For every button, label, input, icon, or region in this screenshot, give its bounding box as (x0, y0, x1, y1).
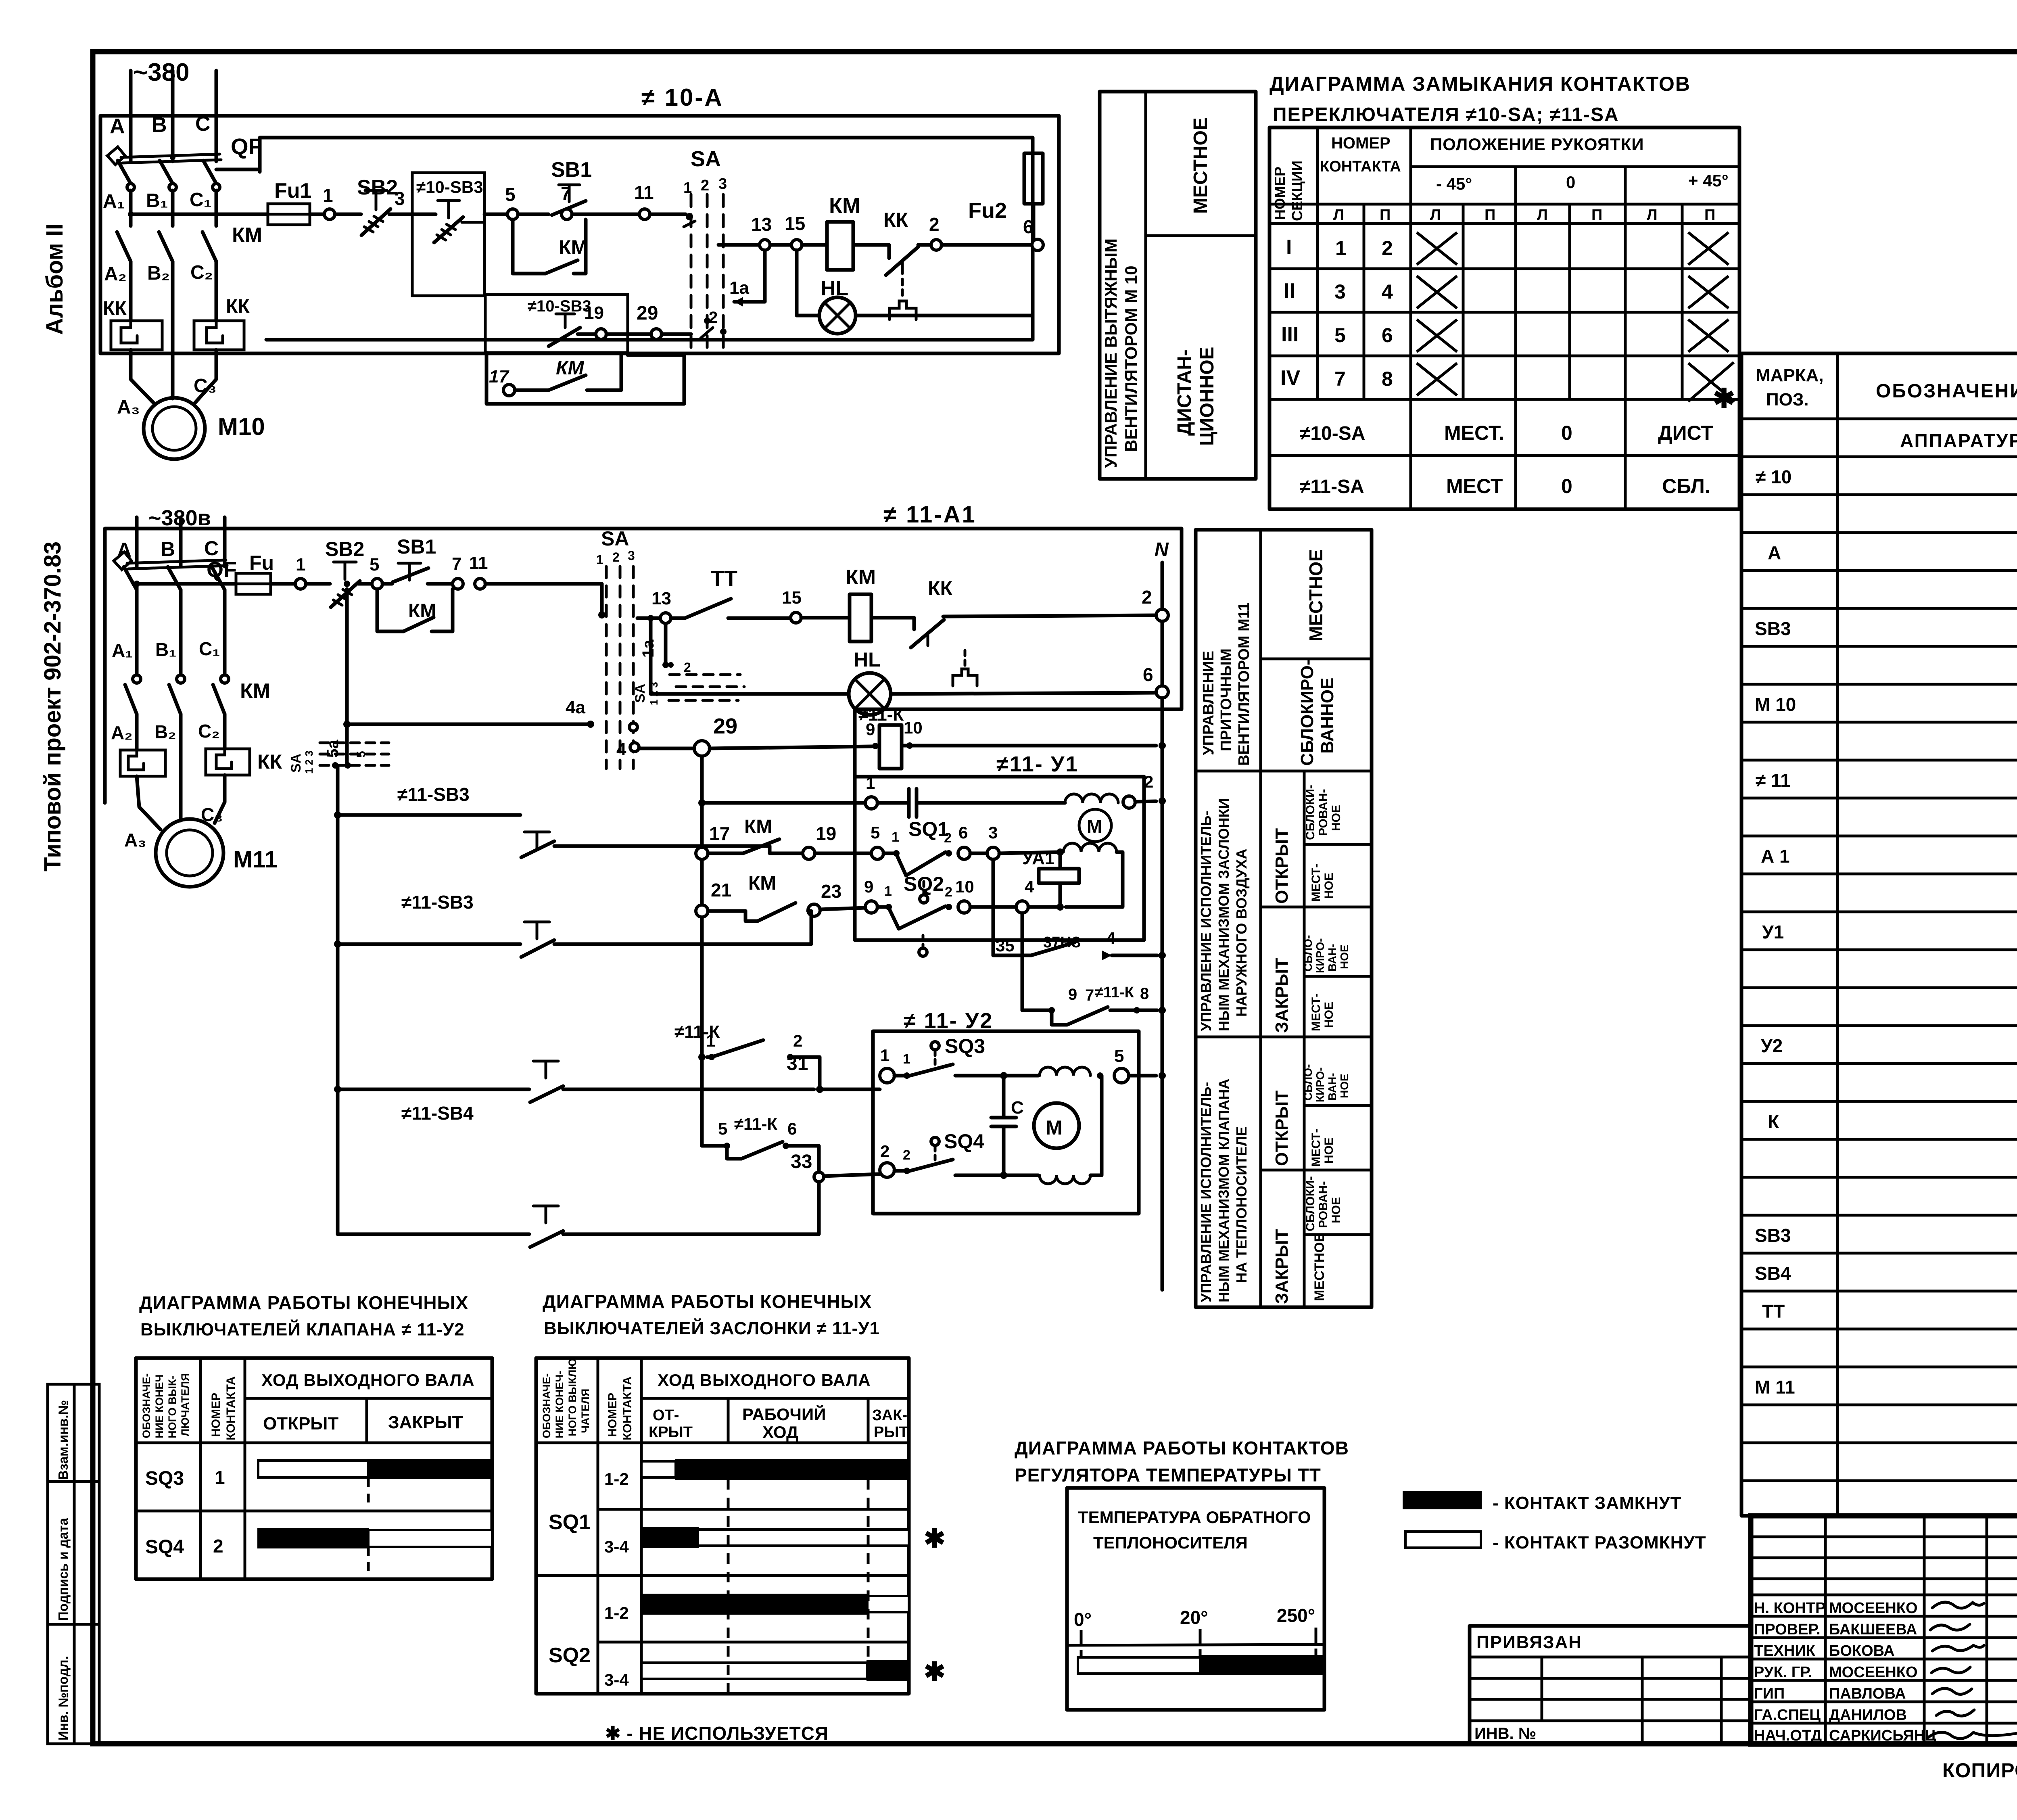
svg-text:УА1: УА1 (1022, 848, 1054, 868)
svg-text:≠11-К: ≠11-К (734, 1114, 777, 1133)
svg-text:НОГО ВЫКЛЮ: НОГО ВЫКЛЮ (566, 1358, 578, 1436)
contact #11-K 5-6 (702, 1114, 819, 1171)
node 2 U1 (1123, 772, 1156, 808)
label ~380v supply (148, 506, 211, 530)
button #11-SB3 branch 2 (338, 892, 811, 957)
main control wire from A1 (128, 211, 268, 217)
svg-text:C₂: C₂ (190, 262, 213, 283)
winding U2 top (1040, 1067, 1103, 1079)
note: asterisk legend (605, 1723, 829, 1744)
svg-text:9: 9 (866, 720, 875, 739)
svg-text:SQ1: SQ1 (549, 1511, 591, 1534)
svg-text:КРЫТ: КРЫТ (649, 1424, 693, 1441)
svg-text:ДИАГРАММА ЗАМЫКАНИЯ КОНТАКТО: ДИАГРАММА ЗАМЫКАНИЯ КОНТАКТОВ (1269, 73, 1691, 95)
svg-text:КМ: КМ (556, 357, 585, 379)
wire to node 5 (484, 213, 507, 216)
thermal element KK phase C ckt2 (206, 749, 282, 775)
coil UA1 (1022, 848, 1079, 907)
svg-text:НОМЕР: НОМЕР (1272, 167, 1288, 220)
svg-text:4: 4 (1106, 929, 1116, 948)
svg-text:3: 3 (1334, 280, 1346, 303)
svg-text:КОНТАКТА: КОНТАКТА (621, 1376, 634, 1440)
svg-text:УПРАВЛЕНИЕ: УПРАВЛЕНИЕ (1200, 651, 1217, 755)
svg-text:М11: М11 (233, 846, 278, 873)
U1 row2: SQ1 (871, 818, 1064, 903)
breaker QF (107, 134, 262, 191)
capacitor C in U2 (991, 1076, 1024, 1175)
svg-text:A₁: A₁ (112, 640, 133, 661)
svg-text:2: 2 (880, 1142, 889, 1161)
svg-text:РЕГУЛЯТОРА ТЕМПЕРАТУРЫ ТТ: РЕГУЛЯТОРА ТЕМПЕРАТУРЫ ТТ (1015, 1465, 1321, 1486)
svg-text:7: 7 (1085, 986, 1094, 1004)
svg-text:МЕСТ-: МЕСТ- (1309, 1129, 1323, 1167)
U1 row3: SQ2 (864, 873, 1064, 956)
svg-text:B: B (152, 113, 167, 137)
wire QF to control loop (216, 168, 260, 171)
svg-text:3-4: 3-4 (604, 1670, 629, 1689)
svg-text:ПОЗ.: ПОЗ. (1766, 390, 1809, 410)
svg-text:НОГО ВЫК-: НОГО ВЫК- (166, 1376, 178, 1438)
node 3 label (389, 188, 436, 214)
svg-text:31: 31 (787, 1053, 808, 1074)
SA deck 1a (633, 624, 744, 705)
svg-text:8: 8 (1140, 985, 1149, 1003)
fuse Fu ckt2 (236, 552, 295, 594)
phase bus B2ckt (161, 517, 181, 566)
enclosure local button #10-SB3 (412, 173, 484, 296)
svg-text:БОКОВА: БОКОВА (1829, 1642, 1895, 1659)
svg-text:АППАРАТУРА: АППАРАТУРА (1900, 430, 2017, 451)
thermal element KK phase A (103, 298, 162, 350)
phase bus B (152, 71, 173, 161)
enclosure box #11-A1 (105, 529, 1182, 803)
svg-text:КК: КК (226, 296, 250, 317)
motor M in U2 (1034, 1103, 1079, 1148)
svg-text:1a: 1a (729, 278, 749, 298)
svg-text:ОБОЗНАЧЕ-: ОБОЗНАЧЕ- (541, 1373, 553, 1438)
label box #11-A1 (883, 501, 977, 528)
margin stamp boxes bottom-left (48, 1384, 99, 1744)
svg-text:9: 9 (1068, 986, 1077, 1003)
svg-text:A₃: A₃ (124, 830, 146, 850)
svg-text:МЕСТНОЕ: МЕСТНОЕ (1312, 1233, 1327, 1301)
svg-text:У1: У1 (1762, 921, 1784, 942)
svg-text:НАРУЖНОГО ВОЗДУХА: НАРУЖНОГО ВОЗДУХА (1233, 848, 1250, 1017)
node 19 (584, 303, 651, 339)
svg-text:ЗАКРЫТ: ЗАКРЫТ (1272, 1229, 1292, 1304)
contactor KM main contacts (117, 190, 262, 355)
contact state bars U1 table (641, 1460, 946, 1694)
svg-text:2: 2 (929, 214, 940, 235)
svg-text:СБЛОКИ-: СБЛОКИ- (1304, 785, 1317, 840)
svg-text:УПРАВЛЕНИЕ ИСПОЛНИТЕЛЬ-: УПРАВЛЕНИЕ ИСПОЛНИТЕЛЬ- (1198, 811, 1214, 1032)
svg-text:Fu1: Fu1 (274, 179, 311, 203)
button SB2 ckt2 (NC) (306, 538, 372, 607)
svg-text:A₃: A₃ (117, 397, 140, 418)
svg-text:ТЕПЛОНОСИТЕЛЯ: ТЕПЛОНОСИТЕЛЯ (1093, 1533, 1248, 1552)
svg-text:МОСЕЕНКО: МОСЕЕНКО (1829, 1600, 1918, 1617)
coil #11-K (858, 705, 1156, 769)
phase drops to KM ckt2 (112, 584, 229, 683)
svg-text:М: М (1046, 1116, 1063, 1139)
svg-text:3: 3 (988, 823, 998, 842)
svg-text:HL: HL (854, 648, 881, 671)
svg-text:НОЕ: НОЕ (1338, 1074, 1351, 1098)
svg-text:2: 2 (945, 884, 952, 900)
svg-text:ТЕХНИК: ТЕХНИК (1754, 1642, 1816, 1659)
svg-text:ОБОЗНАЧЕ-: ОБОЗНАЧЕ- (140, 1373, 152, 1438)
svg-text:ДАНИЛОВ: ДАНИЛОВ (1829, 1707, 1907, 1724)
svg-text:1a: 1a (639, 639, 657, 658)
svg-text:СБЛО-: СБЛО- (1302, 1064, 1314, 1101)
svg-text:SQ4: SQ4 (145, 1536, 184, 1558)
svg-text:SA: SA (691, 147, 721, 171)
node 7 ckt2 (452, 554, 463, 589)
node 13 ckt2 (651, 589, 671, 623)
svg-text:КОНТАКТА: КОНТАКТА (1320, 158, 1401, 175)
svg-text:НИЕ КОНЕЧ: НИЕ КОНЕЧ (153, 1375, 165, 1438)
svg-text:РАБОЧИЙ: РАБОЧИЙ (742, 1404, 826, 1424)
svg-text:М 11: М 11 (1755, 1377, 1795, 1398)
svg-text:7: 7 (1334, 368, 1346, 390)
node 31 (787, 1053, 880, 1093)
svg-text:Fu2: Fu2 (968, 199, 1007, 223)
svg-text:МЕСТНОЕ: МЕСТНОЕ (1305, 549, 1326, 641)
contact 35 row (993, 859, 1157, 960)
svg-text:КМ: КМ (846, 566, 876, 589)
svg-text:НОЕ: НОЕ (1322, 1137, 1336, 1164)
svg-text:Л: Л (1430, 207, 1441, 224)
svg-text:5: 5 (1334, 324, 1346, 347)
svg-text:- КОНТАКТ РАЗОМКНУТ: - КОНТАКТ РАЗОМКНУТ (1493, 1533, 1706, 1553)
svg-text:СБЛОКИ-: СБЛОКИ- (1304, 1176, 1317, 1231)
svg-text:✱ - НЕ ИСПОЛЬЗУЕТСЯ: ✱ - НЕ ИСПОЛЬЗУЕТСЯ (605, 1723, 829, 1744)
local button #10-SB3 lower enclosure (485, 295, 628, 353)
svg-text:4: 4 (1382, 280, 1393, 303)
svg-text:29: 29 (713, 714, 737, 738)
svg-text:ОБОЗНАЧЕНИЕ: ОБОЗНАЧЕНИЕ (1876, 380, 2017, 402)
SA contact row to node 13 (718, 243, 760, 247)
svg-text:ВЕНТИЛЯТОРОМ М 10: ВЕНТИЛЯТОРОМ М 10 (1121, 265, 1140, 452)
svg-text:19: 19 (816, 823, 836, 844)
button #10-SB3 lower (NC) (549, 314, 596, 346)
svg-text:≠10-SB3: ≠10-SB3 (528, 297, 591, 315)
svg-text:НОЕ: НОЕ (1330, 1197, 1343, 1223)
node 15 (785, 213, 827, 250)
table: SA switch closure (1269, 127, 1739, 509)
svg-text:Н. КОНТР.: Н. КОНТР. (1754, 1600, 1827, 1617)
svg-text:C₁: C₁ (199, 638, 220, 659)
svg-text:КОНТАКТА: КОНТАКТА (224, 1376, 238, 1440)
svg-text:2: 2 (1142, 587, 1152, 608)
svg-text:КМ: КМ (829, 194, 860, 218)
svg-text:B₁: B₁ (155, 639, 176, 660)
phase bus C (195, 71, 216, 161)
SA deck lower-left (288, 724, 389, 774)
svg-text:1: 1 (892, 830, 899, 845)
svg-text:≠11-К: ≠11-К (1095, 984, 1134, 1001)
svg-text:САРКИСЬЯНЦ: САРКИСЬЯНЦ (1829, 1727, 1936, 1744)
svg-text:SB1: SB1 (397, 535, 436, 558)
svg-text:ПЕРЕКЛЮЧАТЕЛЯ ≠10-SA; ≠11-SA: ПЕРЕКЛЮЧАТЕЛЯ ≠10-SA; ≠11-SA (1273, 104, 1619, 125)
svg-text:15: 15 (785, 213, 805, 234)
contact #11-K 7-8 row (1022, 913, 1157, 1025)
svg-text:C: C (1011, 1098, 1024, 1118)
left feed rail (334, 765, 341, 1234)
svg-text:SQ2: SQ2 (549, 1644, 591, 1667)
bottom margin text: kopiroval (1942, 1737, 2017, 1784)
aux contact KM 17-19 (708, 816, 779, 853)
svg-text:III: III (1281, 323, 1299, 346)
aux contact KM self-hold (513, 219, 588, 274)
table: limit switches U2 (136, 1358, 492, 1579)
title: limit switch diagram damper #11-U1 (543, 1291, 880, 1338)
svg-text:НОЕ: НОЕ (1330, 805, 1343, 831)
phase bus A (110, 71, 131, 161)
svg-text:КК: КК (103, 298, 127, 319)
svg-text:Подпись и дата: Подпись и дата (56, 1518, 71, 1621)
winding U1 row1 (1065, 794, 1118, 803)
svg-text:ДИАГРАММА РАБОТЫ КОНЕЧНЫХ: ДИАГРАММА РАБОТЫ КОНЕЧНЫХ (543, 1291, 872, 1312)
table: control mode strip M11 (1196, 530, 1372, 1307)
svg-text:ХОД ВЫХОДНОГО ВАЛА: ХОД ВЫХОДНОГО ВАЛА (658, 1371, 871, 1390)
svg-text:КК: КК (928, 577, 953, 600)
svg-text:3: 3 (395, 188, 405, 209)
svg-text:SB4: SB4 (1755, 1263, 1791, 1284)
node 19 (803, 823, 871, 859)
svg-text:- 45°: - 45° (1436, 174, 1472, 193)
svg-text:7: 7 (561, 183, 571, 204)
svg-text:4a: 4a (566, 698, 585, 717)
svg-text:НИЕ КОНЕЧ-: НИЕ КОНЕЧ- (553, 1371, 566, 1438)
svg-text:10: 10 (955, 877, 974, 896)
svg-text:2: 2 (701, 177, 709, 194)
svg-text:0: 0 (1561, 422, 1572, 444)
contact state bars U2 table (258, 1460, 492, 1578)
title: contact closure diagram (1269, 73, 1691, 125)
wires heaters to motor M10 (117, 350, 217, 418)
svg-text:✱: ✱ (924, 1524, 946, 1553)
svg-text:1: 1 (884, 884, 892, 899)
svg-text:КМ: КМ (232, 224, 262, 247)
vertical feed through 17/21 (696, 756, 708, 1146)
signatures squiggles (1928, 1602, 2017, 1739)
svg-text:5: 5 (718, 1119, 727, 1138)
node 33 (791, 1151, 880, 1182)
svg-text:29: 29 (637, 303, 658, 324)
svg-text:SA: SA (633, 684, 648, 703)
svg-text:5: 5 (1114, 1046, 1124, 1066)
svg-text:ОТКРЫТ: ОТКРЫТ (263, 1414, 338, 1433)
svg-text:≠10-SA: ≠10-SA (1300, 423, 1365, 444)
svg-text:ОТКРЫТ: ОТКРЫТ (1272, 828, 1292, 904)
svg-text:УПРАВЛЕНИЕ ИСПОЛНИТЕЛЬ-: УПРАВЛЕНИЕ ИСПОЛНИТЕЛЬ- (1198, 1082, 1214, 1303)
svg-text:ТТ: ТТ (711, 566, 737, 591)
svg-text:ХОД ВЫХОДНОГО ВАЛА: ХОД ВЫХОДНОГО ВАЛА (261, 1371, 475, 1390)
svg-text:ЗАК-: ЗАК- (872, 1407, 907, 1424)
svg-text:КМ: КМ (240, 679, 270, 703)
contact #11-K 1-2 (674, 1022, 820, 1089)
svg-text:2: 2 (213, 1536, 223, 1557)
svg-text:≠11-SA: ≠11-SA (1300, 476, 1364, 497)
svg-text:19: 19 (584, 303, 604, 323)
svg-text:N: N (1155, 539, 1169, 560)
svg-text:М10: М10 (218, 413, 265, 440)
node 2 (929, 214, 1032, 250)
node 1 ckt2 (295, 555, 306, 589)
svg-text:5: 5 (505, 184, 516, 205)
svg-text:C: C (204, 537, 219, 560)
svg-text:А: А (1768, 542, 1781, 563)
svg-text:КК: КК (257, 750, 282, 773)
enclosure #11-U1 (855, 752, 1144, 940)
svg-text:ЧАТЕЛЯ: ЧАТЕЛЯ (579, 1389, 591, 1433)
svg-text:SB2: SB2 (357, 176, 398, 199)
svg-text:ДИСТ: ДИСТ (1658, 422, 1713, 444)
svg-text:СБЛОКИРО-: СБЛОКИРО- (1297, 659, 1317, 766)
svg-text:ВЕНТИЛЯТОРОМ М11: ВЕНТИЛЯТОРОМ М11 (1236, 602, 1253, 766)
table: control mode strip M10 (1100, 92, 1256, 479)
svg-text:ГА.СПЕЦ: ГА.СПЕЦ (1754, 1707, 1821, 1724)
svg-text:1: 1 (866, 773, 875, 792)
svg-text:A₂: A₂ (104, 263, 127, 285)
svg-text:РУК. ГР.: РУК. ГР. (1754, 1664, 1812, 1681)
svg-text:≠11-SB3: ≠11-SB3 (397, 784, 470, 805)
node 1 (323, 185, 335, 219)
node 6 ckt2 (1143, 664, 1168, 698)
svg-text:НОМЕР: НОМЕР (606, 1393, 619, 1437)
svg-text:НОЕ: НОЕ (1322, 873, 1336, 899)
svg-text:НЫМ МЕХАНИЗМОМ ЗАСЛОНКИ: НЫМ МЕХАНИЗМОМ ЗАСЛОНКИ (1215, 798, 1232, 1031)
fuse Fu1 (268, 179, 311, 225)
main control wire ckt2 (134, 581, 236, 587)
svg-text:ПРОВЕР.: ПРОВЕР. (1754, 1621, 1821, 1638)
svg-text:SB3: SB3 (1755, 1225, 1791, 1246)
table: equipment list (1741, 353, 2017, 1516)
fuse Fu2 (968, 153, 1043, 239)
thermal contact KK ckt2 (910, 577, 1156, 686)
node 1a branch (729, 250, 765, 307)
svg-text:3: 3 (628, 548, 635, 563)
svg-text:15: 15 (782, 588, 802, 608)
svg-text:НОМЕР: НОМЕР (209, 1393, 223, 1437)
svg-text:ЛЮЧАТЕЛЯ: ЛЮЧАТЕЛЯ (179, 1373, 191, 1436)
button #11-SB4 branch 2 (338, 1182, 819, 1247)
svg-text:2: 2 (684, 660, 691, 675)
svg-text:Л: Л (1647, 207, 1658, 224)
svg-text:250°: 250° (1277, 1605, 1315, 1626)
svg-text:ТТ: ТТ (1762, 1301, 1785, 1322)
svg-text:ЗАКРЫТ: ЗАКРЫТ (1272, 958, 1292, 1033)
svg-text:≠11-SB4: ≠11-SB4 (401, 1103, 474, 1124)
svg-text:SQ4: SQ4 (944, 1130, 984, 1153)
svg-text:2: 2 (1144, 772, 1153, 791)
motor M in U1 (1079, 809, 1111, 842)
svg-text:21: 21 (711, 880, 731, 901)
svg-text:B₁: B₁ (146, 190, 168, 211)
aux contact KM 21-23 (NC) (708, 873, 796, 921)
node 17 (709, 823, 730, 844)
svg-text:УПРАВЛЕНИЕ ВЫТЯЖНЫМ: УПРАВЛЕНИЕ ВЫТЯЖНЫМ (1101, 238, 1120, 468)
svg-text:5: 5 (370, 555, 379, 575)
X closure marks (1417, 232, 1735, 401)
svg-text:A₁: A₁ (103, 191, 125, 212)
wire SA to node 13 (637, 616, 660, 620)
svg-text:ОТКРЫТ: ОТКРЫТ (1272, 1091, 1292, 1166)
svg-text:✱: ✱ (1713, 383, 1735, 413)
svg-text:6: 6 (787, 1119, 797, 1138)
svg-text:≠11-SB3: ≠11-SB3 (401, 892, 474, 913)
neutral N wire (1155, 539, 1169, 609)
svg-text:1: 1 (706, 1031, 715, 1050)
node 2 ckt2 (1142, 587, 1168, 621)
svg-text:SQ3: SQ3 (945, 1035, 985, 1057)
button #10-SB3 (NC) (434, 201, 484, 242)
svg-text:МЕСТНОЕ: МЕСТНОЕ (1190, 117, 1211, 214)
svg-text:МЕСТ-: МЕСТ- (1309, 993, 1323, 1031)
svg-text:C₁: C₁ (190, 189, 212, 211)
svg-text:ПРИВЯЗАН: ПРИВЯЗАН (1476, 1632, 1582, 1652)
svg-text:У2: У2 (1761, 1035, 1783, 1056)
svg-text:КК: КК (883, 209, 908, 231)
svg-text:МОСЕЕНКО: МОСЕЕНКО (1829, 1664, 1918, 1681)
contactor KM main contacts ckt2 (111, 679, 270, 821)
svg-text:1 2 3: 1 2 3 (303, 750, 315, 774)
lamp HL (797, 250, 1033, 340)
svg-text:ПАВЛОВА: ПАВЛОВА (1829, 1685, 1906, 1702)
U2 node 1 and SQ3 (880, 1035, 1038, 1083)
svg-text:A: A (110, 115, 125, 138)
winding U1 row2 loop (1063, 843, 1123, 907)
thermal element KK phase C (194, 296, 250, 350)
svg-text:A₂: A₂ (111, 722, 133, 743)
wire Fu1 to node 1 (310, 213, 324, 216)
svg-text:QF: QF (231, 134, 262, 159)
svg-text:П: П (1591, 207, 1602, 224)
svg-text:ДИАГРАММА РАБОТЫ КОНТАКТОВ: ДИАГРАММА РАБОТЫ КОНТАКТОВ (1015, 1438, 1349, 1459)
phase bus A2ckt (117, 517, 137, 566)
svg-text:1: 1 (215, 1467, 225, 1488)
enclosure box #10-A (100, 116, 1059, 353)
svg-text:ОТ-: ОТ- (653, 1407, 679, 1424)
svg-text:+ 45°: + 45° (1688, 171, 1729, 190)
node 29 ckt2 (694, 714, 872, 756)
svg-text:Альбом II: Альбом II (42, 224, 68, 335)
svg-text:35: 35 (996, 936, 1015, 955)
wires to motor M11 (124, 775, 225, 850)
aux contact KM node 17 branch (487, 353, 684, 404)
svg-text:ДИСТАН-: ДИСТАН- (1174, 349, 1195, 436)
title block stamp (1751, 1516, 2017, 1746)
svg-text:≠10-SB3: ≠10-SB3 (416, 178, 483, 196)
table: privyazan block (1470, 1626, 1750, 1744)
svg-text:МЕСТ-: МЕСТ- (1309, 864, 1323, 902)
labels A2 B2 C2 (104, 262, 213, 285)
svg-text:ЗАКРЫТ: ЗАКРЫТ (388, 1413, 463, 1432)
svg-text:1: 1 (296, 555, 305, 575)
node 5 (505, 184, 518, 219)
table: TT temperature diagram (1067, 1488, 1324, 1710)
svg-text:ПОЛОЖЕНИЕ РУКОЯТКИ: ПОЛОЖЕНИЕ РУКОЯТКИ (1430, 135, 1644, 154)
svg-text:Л: Л (1333, 207, 1344, 224)
svg-text:МЕСТ: МЕСТ (1446, 475, 1503, 497)
svg-text:2: 2 (944, 830, 952, 846)
coil KM ckt2 (846, 566, 910, 641)
svg-text:≠ 10: ≠ 10 (1756, 466, 1791, 487)
node 4 small ckt2 (616, 723, 694, 759)
node 7 (561, 183, 639, 219)
motor M10 (144, 398, 265, 459)
